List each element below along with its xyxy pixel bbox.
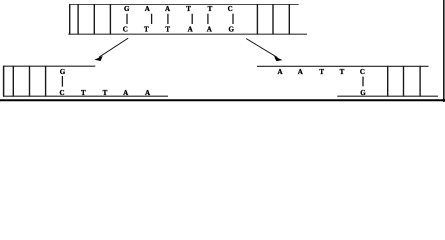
- svg-text:C: C: [59, 89, 64, 97]
- svg-text:C: C: [360, 68, 365, 76]
- svg-text:A: A: [277, 68, 282, 76]
- right fragment: top strand line: [257, 65, 429, 67]
- top DNA molecule: top strand line: [69, 4, 298, 6]
- top DNA molecule: right rung 2: [272, 4, 274, 35]
- svg-text:A: A: [145, 89, 150, 97]
- right fragment: rung 2: [403, 66, 405, 97]
- bottom page border: [0, 99, 445, 101]
- svg-text:A: A: [145, 5, 150, 13]
- left fragment: left end-cap rung: [3, 66, 5, 97]
- hydrogen bond C-G: [232, 14, 234, 24]
- left fragment hydrogen bond G-C: [61, 76, 63, 87]
- svg-text:T: T: [103, 89, 108, 97]
- svg-text:T: T: [208, 5, 213, 13]
- svg-text:G: G: [360, 89, 366, 97]
- svg-text:T: T: [165, 25, 170, 33]
- left fragment: rung 3: [45, 66, 47, 97]
- hydrogen bond T-A: [191, 14, 193, 24]
- svg-text:C: C: [123, 25, 128, 33]
- right page border: [443, 0, 445, 102]
- left fragment: rung 2: [29, 66, 31, 97]
- svg-text:T: T: [186, 5, 191, 13]
- svg-text:A: A: [188, 25, 193, 33]
- left fragment: top strand line: [3, 65, 95, 67]
- svg-text:T: T: [81, 89, 86, 97]
- right fragment hydrogen bond C-G: [362, 77, 364, 87]
- svg-text:T: T: [319, 68, 324, 76]
- svg-text:A: A: [298, 68, 303, 76]
- right cut arrow: [246, 39, 282, 62]
- left fragment: rung 1: [12, 66, 14, 97]
- hydrogen bond G-C: [126, 14, 128, 24]
- svg-text:C: C: [228, 5, 233, 13]
- hydrogen bond T-A: [207, 14, 209, 24]
- right fragment: bottom strand line: [337, 95, 438, 97]
- svg-text:A: A: [165, 5, 170, 13]
- svg-text:A: A: [123, 89, 128, 97]
- right fragment: rung 3: [419, 66, 421, 97]
- top DNA molecule: right rung 3: [288, 4, 290, 35]
- left cut arrow: [94, 38, 128, 61]
- hydrogen bond A-T: [151, 14, 153, 24]
- top DNA molecule: right rung 1: [256, 4, 258, 35]
- svg-text:G: G: [60, 68, 66, 76]
- hydrogen bond A-T: [167, 14, 169, 24]
- right fragment: rung 1: [387, 66, 389, 97]
- top DNA molecule: bottom strand line: [68, 33, 307, 35]
- svg-text:T: T: [144, 25, 149, 33]
- svg-text:A: A: [207, 25, 212, 33]
- left fragment: bottom strand line: [3, 95, 168, 97]
- svg-text:G: G: [228, 25, 234, 33]
- top DNA molecule: left rung 1: [77, 4, 79, 35]
- top DNA molecule: left rung 3: [109, 4, 111, 35]
- svg-text:G: G: [124, 5, 130, 13]
- top DNA molecule: left rung 2: [93, 4, 95, 35]
- top DNA molecule: left end-cap rung: [69, 4, 71, 35]
- svg-text:T: T: [340, 68, 345, 76]
